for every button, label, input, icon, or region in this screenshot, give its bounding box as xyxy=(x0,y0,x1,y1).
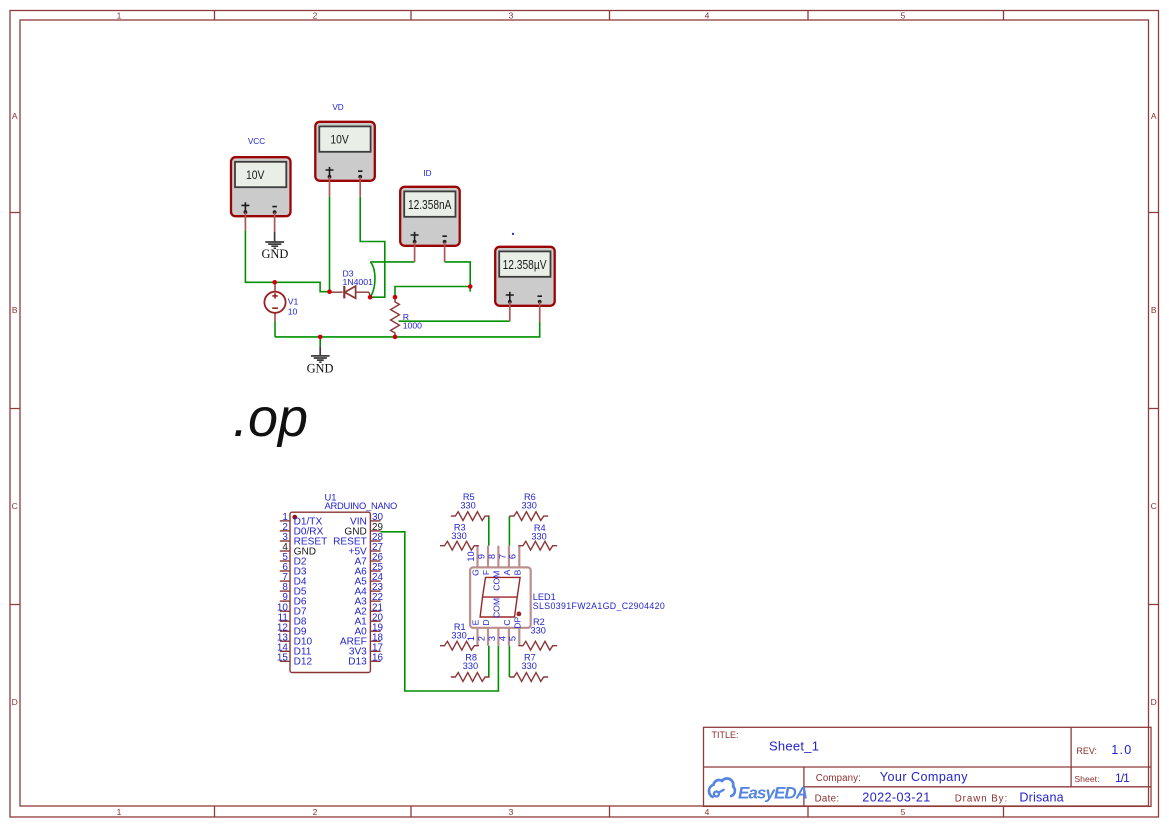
svg-text:330: 330 xyxy=(531,532,546,542)
resistor R vertical xyxy=(391,297,400,338)
wire V1 top to diode anode node xyxy=(275,282,330,291)
wire rail GND stub xyxy=(319,337,321,346)
svg-text:A: A xyxy=(12,111,18,121)
svg-text:D: D xyxy=(481,619,491,625)
junction node gnd rail xyxy=(318,335,323,340)
pin stub VD- xyxy=(359,177,361,197)
svg-text:B: B xyxy=(1151,305,1157,315)
junction node ID- xyxy=(468,284,473,289)
resistor R4 330 xyxy=(518,541,557,550)
svg-text:Sheet:: Sheet: xyxy=(1074,774,1099,784)
svg-text:Date:: Date: xyxy=(815,793,840,804)
svg-text:EasyEDA: EasyEDA xyxy=(738,783,808,802)
wire curved ID+ net down to diode cathode node xyxy=(370,262,375,297)
svg-text:5: 5 xyxy=(901,10,906,20)
pin 5 D2 xyxy=(280,560,290,562)
voltage source V1 xyxy=(264,282,285,321)
pin 3 RESET xyxy=(280,540,290,542)
svg-text:4: 4 xyxy=(705,807,710,817)
svg-text:330: 330 xyxy=(451,531,466,541)
pin 4 GND xyxy=(280,550,290,552)
voltmeter VCC xyxy=(231,157,291,216)
IC U1 ARDUINO_NANO body xyxy=(290,512,370,672)
resistor R1 330 xyxy=(440,641,479,650)
svg-text:5: 5 xyxy=(901,807,906,817)
svg-text:10V: 10V xyxy=(246,168,265,182)
svg-text:C: C xyxy=(502,619,512,625)
wire ID+ horizontal xyxy=(370,261,414,263)
column numbers top xyxy=(117,10,906,20)
svg-text:VCC: VCC xyxy=(248,137,265,146)
svg-text:4: 4 xyxy=(497,636,507,641)
ground GND1 under VCC- xyxy=(261,232,288,262)
svg-text:Drawn By:: Drawn By: xyxy=(955,793,1008,804)
svg-text:1: 1 xyxy=(117,10,122,20)
pin 17 3V3 xyxy=(370,650,380,652)
pin stub VCC- xyxy=(274,212,276,231)
pin 16 D13 xyxy=(370,660,380,662)
pin 10 D7 xyxy=(280,610,290,612)
svg-text:Drisana: Drisana xyxy=(1019,790,1063,804)
ground GND2 on rail xyxy=(307,346,334,375)
svg-text:7: 7 xyxy=(497,554,507,559)
svg-text:330: 330 xyxy=(451,631,466,641)
svg-text:D13: D13 xyxy=(348,657,367,668)
wire VD+ down to diode left node xyxy=(329,197,331,292)
resistor R6 330 xyxy=(509,512,548,521)
pin 20 A1 xyxy=(370,620,380,622)
LED1 decimal point xyxy=(517,612,522,617)
svg-text:ARDUINO_NANO: ARDUINO_NANO xyxy=(325,500,398,511)
pin 27 +5V xyxy=(370,550,380,552)
wire R7 to pin4 xyxy=(508,646,510,677)
row ticks left xyxy=(10,213,20,605)
svg-text:6: 6 xyxy=(508,554,518,559)
pin 14 D11 xyxy=(280,650,290,652)
svg-text:REV:: REV: xyxy=(1076,746,1097,756)
svg-text:330: 330 xyxy=(460,500,475,510)
svg-text:1/1: 1/1 xyxy=(1115,771,1130,785)
resistor R3 330 xyxy=(440,541,479,550)
wire uV+ to resistor right xyxy=(399,320,510,322)
pin 13 D10 xyxy=(280,640,290,642)
svg-text:TITLE:: TITLE: xyxy=(712,730,739,740)
LED1 7-segment display body xyxy=(470,546,531,646)
svg-text:Sheet_1: Sheet_1 xyxy=(769,739,819,754)
pin 8 D5 xyxy=(280,590,290,592)
svg-text:12.358nA: 12.358nA xyxy=(408,198,452,212)
svg-text:VD: VD xyxy=(332,103,343,112)
svg-text:15: 15 xyxy=(277,652,288,663)
pin 23 A4 xyxy=(370,590,380,592)
wire U1 pin29 GND to LED1 COM pin3 xyxy=(381,532,499,691)
svg-text:330: 330 xyxy=(522,500,537,510)
resistor R7 330 xyxy=(509,673,548,682)
pin 1 marker dot xyxy=(292,515,297,520)
pin 25 A6 xyxy=(370,570,380,572)
svg-text:5: 5 xyxy=(508,636,518,641)
pin 11 D8 xyxy=(280,620,290,622)
row letters right xyxy=(1151,111,1157,707)
svg-text:Company:: Company: xyxy=(816,773,861,784)
pin 9 D6 xyxy=(280,600,290,602)
pin stub ID+ xyxy=(414,242,416,262)
pin 22 A3 xyxy=(370,600,380,602)
svg-text:D12: D12 xyxy=(294,657,313,668)
svg-text:1N4001: 1N4001 xyxy=(343,277,374,287)
svg-text:330: 330 xyxy=(522,661,537,671)
pin 6 D3 xyxy=(280,570,290,572)
svg-text:330: 330 xyxy=(531,626,546,636)
svg-text:B: B xyxy=(513,569,523,575)
pin 21 A2 xyxy=(370,610,380,612)
junction node V1 top xyxy=(272,280,277,285)
svg-text:G: G xyxy=(471,569,481,576)
row letters left xyxy=(12,111,18,707)
resistor R5 330 xyxy=(451,512,490,521)
svg-text:3: 3 xyxy=(509,807,514,817)
svg-text:10: 10 xyxy=(466,551,476,561)
svg-text:COM: COM xyxy=(492,571,502,591)
svg-text:COM: COM xyxy=(492,598,502,618)
diode D3 xyxy=(330,286,371,298)
svg-text:V1: V1 xyxy=(288,297,299,307)
column ticks top xyxy=(215,11,1004,21)
wire uV- down to ground rail xyxy=(275,322,540,337)
resistor R8 330 xyxy=(451,673,490,682)
svg-text:Your Company: Your Company xyxy=(880,770,968,784)
svg-text:ID: ID xyxy=(423,169,431,178)
svg-text:D: D xyxy=(1151,697,1157,707)
pin 29 GND xyxy=(370,530,380,532)
svg-text:A: A xyxy=(1151,111,1157,121)
svg-text:F: F xyxy=(481,570,491,575)
title block frame xyxy=(704,727,1152,806)
svg-text:2: 2 xyxy=(476,636,486,641)
column numbers bottom xyxy=(117,807,906,817)
svg-text:8: 8 xyxy=(487,554,497,559)
row ticks right xyxy=(1149,213,1159,605)
voltmeter VD xyxy=(315,122,375,181)
junction node diode cathode xyxy=(368,295,373,300)
svg-text:DP: DP xyxy=(513,617,523,629)
svg-text:1000: 1000 xyxy=(403,321,422,331)
pin 15 D12 xyxy=(280,660,290,662)
wire VCC+ to V1 top xyxy=(245,231,274,283)
pin stub VCC+ xyxy=(244,212,246,230)
svg-text:9: 9 xyxy=(476,554,486,559)
pin 1 D1/TX xyxy=(280,520,290,522)
svg-text:A: A xyxy=(502,569,512,575)
svg-text:10: 10 xyxy=(288,306,298,316)
pin 24 A5 xyxy=(370,580,380,582)
pin 28 RESET xyxy=(370,540,380,542)
resistor R2 330 xyxy=(518,641,557,650)
voltmeter uV xyxy=(495,247,555,306)
pin stub VD+ xyxy=(329,177,331,197)
column ticks bottom xyxy=(215,807,1004,818)
svg-text:SLS0391FW2A1GD_C2904420: SLS0391FW2A1GD_C2904420 xyxy=(533,601,665,611)
wire V1 bottom to rail xyxy=(274,322,276,337)
LED1 digit 8 outline xyxy=(480,577,520,617)
pin stub uV+ xyxy=(509,302,511,321)
wire R6 to pin7 xyxy=(508,516,510,546)
svg-text:10V: 10V xyxy=(330,133,349,147)
svg-text:2: 2 xyxy=(313,807,318,817)
pin 19 A0 xyxy=(370,630,380,632)
pin 18 AREF xyxy=(370,640,380,642)
svg-text:4: 4 xyxy=(705,10,710,20)
wire VD- to diode right node xyxy=(360,197,385,298)
svg-text:12.358µV: 12.358µV xyxy=(503,258,547,272)
svg-text:E: E xyxy=(471,619,481,625)
EasyEDA logo xyxy=(709,779,808,803)
junction node resistor top xyxy=(393,295,398,300)
svg-text:3: 3 xyxy=(487,636,497,641)
svg-text:1: 1 xyxy=(117,807,122,817)
svg-text:1.0: 1.0 xyxy=(1111,743,1131,757)
svg-text:1: 1 xyxy=(466,636,476,641)
wire R5 to pin9 xyxy=(488,516,490,546)
svg-text:2: 2 xyxy=(313,10,318,20)
junction node resistor bottom xyxy=(393,335,398,340)
pin 2 D0/RX xyxy=(280,530,290,532)
svg-text:C: C xyxy=(12,501,18,511)
pin 12 D9 xyxy=(280,630,290,632)
junction node diode anode xyxy=(327,289,332,294)
pin 26 A7 xyxy=(370,560,380,562)
pin 7 D4 xyxy=(280,580,290,582)
svg-text:D: D xyxy=(12,697,18,707)
wire ID- to node above resistor xyxy=(445,262,471,292)
pin 30 VIN xyxy=(370,520,380,522)
svg-text:GND: GND xyxy=(261,247,288,261)
label dot of uV meter xyxy=(512,233,514,235)
svg-text:16: 16 xyxy=(372,652,383,663)
svg-text:GND: GND xyxy=(307,362,334,376)
svg-text:330: 330 xyxy=(463,661,478,671)
svg-text:2022-03-21: 2022-03-21 xyxy=(862,790,930,804)
svg-text:C: C xyxy=(1151,501,1157,511)
pin stub ID- xyxy=(444,242,446,262)
svg-text:B: B xyxy=(12,305,18,315)
svg-text:.op: .op xyxy=(233,388,308,448)
ammeter ID xyxy=(400,187,460,246)
wire resistor top node horizontal xyxy=(395,287,470,298)
pin stub uV- xyxy=(539,302,541,322)
wire R8 to pin2 xyxy=(488,646,490,677)
svg-text:3: 3 xyxy=(509,10,514,20)
